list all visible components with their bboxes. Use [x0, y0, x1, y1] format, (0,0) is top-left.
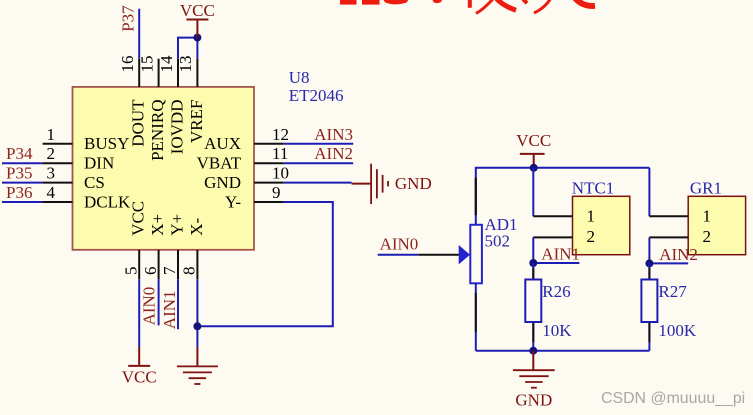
svg-text:AIN1: AIN1 — [541, 245, 580, 264]
wire AIN2 to R27 — [648, 263, 650, 350]
IC U8 body — [73, 87, 255, 250]
wire net AIN0 (pin 6) — [158, 279, 160, 325]
resistor R26 body — [525, 280, 541, 323]
svg-text:CS: CS — [84, 173, 105, 192]
redraw black pin over wire (AD1 top) — [475, 178, 477, 215]
junction bottom rail / GND — [529, 347, 537, 355]
svg-text:DIN: DIN — [84, 154, 114, 173]
power symbol VCC (bottom) — [128, 347, 150, 366]
svg-text:P36: P36 — [6, 183, 32, 202]
U8 pin 2 (DIN) — [43, 144, 115, 172]
potentiometer AD1 wiper arrow — [459, 245, 470, 264]
junction AIN1 — [529, 259, 537, 267]
wire net AIN2 (pin 11) — [284, 162, 353, 164]
AD1 bottom pin (black) — [475, 283, 477, 350]
svg-text:VCC: VCC — [129, 201, 148, 236]
svg-text:P35: P35 — [6, 164, 32, 183]
U8 pin 10 (GND) — [204, 164, 289, 192]
svg-text:VCC: VCC — [180, 1, 215, 20]
svg-text:1: 1 — [47, 125, 56, 144]
ground symbol (earth) below pin 8 — [177, 347, 218, 384]
R27 pins (black) — [648, 268, 650, 280]
U8 pin 14 (IOVDD) — [157, 55, 187, 154]
svg-text:GR1: GR1 — [690, 179, 722, 198]
title "ADC" (clipped bottom strokes) — [340, 0, 443, 5]
U8 pin 16 (DOUT) — [118, 56, 148, 147]
svg-text:8: 8 — [180, 267, 199, 276]
svg-text:10K: 10K — [542, 321, 572, 340]
svg-text:502: 502 — [485, 231, 511, 250]
svg-text:12: 12 — [272, 125, 289, 144]
U8 pin 4 (DCLK) — [43, 183, 131, 211]
svg-text:X-: X- — [187, 218, 206, 236]
svg-text:100K: 100K — [658, 321, 697, 340]
title chinese glyph strokes (clipped) — [470, 0, 595, 14]
power symbol VCC (top) — [186, 20, 208, 38]
wire rail to GR1 pin1 — [648, 168, 650, 216]
svg-text:NTC1: NTC1 — [572, 179, 615, 198]
wire net AIN1 (pin 7) — [177, 279, 179, 329]
wire net P34 — [2, 162, 43, 164]
ground symbol (earth) bottom right — [513, 351, 555, 388]
U8 pin 5 (VCC) — [121, 201, 147, 279]
wire rail to NTC1 pin1 — [532, 168, 534, 216]
svg-text:AIN0: AIN0 — [380, 235, 419, 254]
svg-text:X+: X+ — [148, 214, 167, 236]
svg-text:14: 14 — [157, 55, 176, 73]
svg-text:1: 1 — [587, 207, 596, 226]
svg-text:AIN3: AIN3 — [314, 125, 353, 144]
photoresistor GR1 body — [688, 196, 745, 254]
thermistor NTC1 body — [573, 196, 630, 254]
U8 pin 12 (AUX) — [204, 125, 289, 153]
U8 pin 11 (VBAT) — [197, 144, 289, 172]
svg-text:6: 6 — [141, 267, 160, 276]
wire GR1 pin2 to AIN2 node — [649, 237, 688, 263]
svg-text:DOUT: DOUT — [129, 99, 148, 147]
svg-text:GND: GND — [395, 174, 432, 193]
wire pin 8 to GND — [196, 279, 198, 347]
bottom rail wire — [476, 350, 650, 352]
svg-text:Y+: Y+ — [168, 214, 187, 236]
wire NTC1 pin2 to AIN1 node — [533, 237, 579, 263]
svg-text:DCLK: DCLK — [84, 192, 131, 211]
svg-text:R27: R27 — [658, 282, 687, 301]
U8 pin 15 (PENIRQ) — [137, 56, 167, 161]
svg-text:VCC: VCC — [122, 367, 157, 386]
resistor R27 body — [641, 280, 657, 323]
GR1 pin 2 — [649, 236, 688, 238]
svg-text:13: 13 — [176, 56, 195, 73]
wire net AIN0 to AD1 arrow — [378, 254, 419, 256]
svg-text:VCC: VCC — [516, 131, 551, 150]
NTC1 pin 1 — [533, 215, 572, 217]
GR1 pin 1 — [649, 215, 688, 217]
svg-text:GND: GND — [204, 173, 241, 192]
U8 pin 13 (VREF) — [176, 56, 206, 143]
junction pin13/VCC — [193, 34, 201, 42]
svg-text:BUSY: BUSY — [84, 134, 129, 153]
wire net AIN3 (pin 12) — [284, 143, 353, 145]
U8 pin 6 (X+) — [141, 214, 167, 279]
U8 pin 1 (BUSY) — [43, 125, 130, 153]
junction VCC rail — [530, 164, 538, 172]
svg-text:U8: U8 — [289, 68, 310, 87]
svg-text:16: 16 — [118, 56, 137, 73]
junction AIN2 — [645, 259, 653, 267]
svg-text:2: 2 — [587, 227, 596, 246]
svg-text:IOVDD: IOVDD — [168, 100, 187, 155]
wire AD1 top to VCC rail — [476, 168, 650, 225]
svg-text:AUX: AUX — [204, 134, 241, 153]
svg-text:15: 15 — [137, 56, 156, 73]
svg-text:VREF: VREF — [187, 100, 206, 143]
U8 pin 3 (CS) — [43, 164, 105, 192]
svg-text:P34: P34 — [6, 144, 33, 163]
wire pin 5 to VCC — [138, 279, 140, 347]
svg-text:1: 1 — [703, 207, 712, 226]
svg-text:11: 11 — [272, 144, 288, 163]
power symbol VCC (right) — [520, 154, 545, 168]
svg-text:GND: GND — [515, 391, 552, 410]
U8 pin 9 (Y-) — [225, 183, 284, 211]
wire pin 10 to GND — [284, 182, 352, 184]
svg-text:4: 4 — [47, 183, 56, 202]
wire AIN1 to R26 — [532, 263, 534, 351]
svg-text:VBAT: VBAT — [197, 154, 242, 173]
wire net P36 — [2, 201, 43, 203]
wire net P35 — [2, 182, 43, 184]
wire pin 9 (Y-) to pin 8 junction — [197, 202, 332, 326]
U8 pin 8 (X-) — [180, 218, 206, 280]
AD1 top pin (black) — [475, 178, 477, 215]
svg-text:R26: R26 — [542, 282, 570, 301]
U8 pin 7 (Y+) — [160, 214, 186, 279]
AD1 wiper pin (black) — [418, 254, 459, 256]
svg-text:AIN2: AIN2 — [314, 144, 353, 163]
svg-text:10: 10 — [272, 164, 289, 183]
svg-text:Y-: Y- — [225, 192, 241, 211]
svg-text:2: 2 — [47, 144, 56, 163]
wire VCC to pins 13/14 — [178, 38, 197, 59]
svg-text:AIN1: AIN1 — [160, 290, 179, 329]
svg-text:7: 7 — [160, 266, 179, 275]
svg-text:2: 2 — [703, 227, 712, 246]
R26 pins (black) — [532, 268, 534, 280]
svg-text:ET2046: ET2046 — [289, 86, 344, 105]
svg-text:AIN0: AIN0 — [140, 287, 159, 326]
svg-text:3: 3 — [47, 164, 56, 183]
svg-text:AIN2: AIN2 — [659, 245, 698, 264]
svg-text:9: 9 — [272, 183, 281, 202]
wire net P37 (pin 16) — [138, 9, 140, 59]
NTC1 pin 2 — [533, 236, 572, 238]
svg-text:CSDN @muuuu__pi: CSDN @muuuu__pi — [601, 390, 745, 407]
junction pin8/pin9 — [193, 322, 201, 330]
svg-text:P37: P37 — [118, 5, 137, 32]
svg-text:5: 5 — [121, 267, 140, 276]
svg-text:PENIRQ: PENIRQ — [148, 100, 167, 161]
ground symbol (bar style) at pin 10 — [352, 164, 389, 204]
potentiometer AD1 body — [470, 225, 482, 283]
